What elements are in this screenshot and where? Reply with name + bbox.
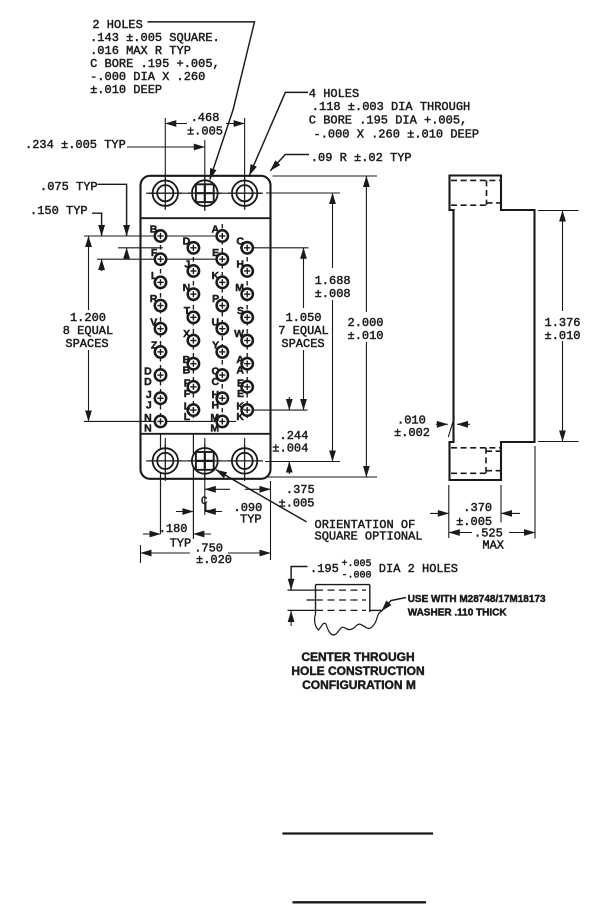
orientation of square note bbox=[315, 518, 423, 544]
contact pin NN bbox=[155, 416, 166, 427]
svg-text:.375: .375 bbox=[286, 483, 315, 497]
svg-text:2 HOLES: 2 HOLES bbox=[92, 18, 142, 32]
column 1 dashed centerline bbox=[160, 229, 162, 426]
pin letters KK bbox=[236, 401, 244, 424]
dimension .150 typ leader bbox=[30, 204, 102, 271]
jagged break line below washer bbox=[315, 611, 382, 635]
dimension 1.376 bbox=[538, 211, 581, 442]
svg-text:.180: .180 bbox=[159, 522, 188, 536]
svg-text:±.010 DEEP: ±.010 DEEP bbox=[90, 83, 162, 97]
dimension .750 overall width bbox=[141, 542, 271, 568]
horizontal rule lower bbox=[293, 901, 427, 903]
extension line body top right bbox=[273, 175, 378, 177]
row C extension line (right) bbox=[240, 247, 309, 249]
use-with washer note bbox=[408, 594, 546, 619]
svg-text:±.005: ±.005 bbox=[187, 125, 223, 139]
svg-text:V: V bbox=[150, 316, 157, 328]
bottom-middle hole vertical centerline extending below body bbox=[204, 438, 206, 515]
svg-text:E: E bbox=[237, 388, 244, 400]
horizontal rule upper bbox=[282, 832, 433, 834]
washer panel surface lines bbox=[288, 590, 367, 610]
contact pin J bbox=[188, 265, 199, 276]
contact pin C bbox=[242, 242, 253, 253]
svg-text:J: J bbox=[184, 259, 190, 271]
svg-text:.143 ±.005 SQUARE.: .143 ±.005 SQUARE. bbox=[90, 31, 220, 45]
top-right hole vertical centerline (extends up to .468 dimension) bbox=[244, 118, 246, 210]
svg-text:WASHER .110 THICK: WASHER .110 THICK bbox=[408, 608, 508, 619]
extension line body bottom right bbox=[268, 476, 377, 478]
svg-text:L: L bbox=[151, 270, 158, 282]
centerline symbol CL below square hole bbox=[201, 496, 211, 515]
extension line body left edge below bbox=[140, 545, 142, 563]
contact pin K bbox=[217, 277, 228, 288]
pin letters BB bbox=[183, 354, 191, 377]
svg-text:.075 TYP: .075 TYP bbox=[40, 180, 98, 194]
pin letters HH bbox=[212, 389, 220, 412]
extension line column2 below body bbox=[192, 434, 194, 539]
dimension .370 bbox=[430, 485, 520, 538]
svg-text:.118 ±.003 DIA THROUGH: .118 ±.003 DIA THROUGH bbox=[312, 100, 470, 114]
svg-text:L: L bbox=[184, 411, 191, 423]
bottom separator line bbox=[141, 433, 271, 435]
column 3 dashed centerline bbox=[221, 224, 223, 426]
svg-text:±.010: ±.010 bbox=[545, 329, 581, 343]
square mounting hole top-middle square bbox=[188, 177, 221, 210]
svg-text:H: H bbox=[236, 259, 244, 271]
svg-text:.09 R ±.02 TYP: .09 R ±.02 TYP bbox=[311, 151, 412, 165]
pin letters MM bbox=[210, 412, 219, 435]
contact pin D bbox=[188, 242, 199, 253]
svg-text:.370: .370 bbox=[463, 501, 492, 515]
svg-text:1.688: 1.688 bbox=[315, 274, 351, 288]
side view bottom hole hidden lines bbox=[451, 448, 500, 474]
svg-text:C BORE .195 +.005,: C BORE .195 +.005, bbox=[90, 57, 220, 71]
washer detail .195 arrows bbox=[291, 567, 307, 627]
contact pin DD bbox=[155, 369, 166, 380]
svg-text:W: W bbox=[234, 328, 244, 340]
pin letters AA bbox=[236, 354, 244, 377]
svg-text:8 EQUAL: 8 EQUAL bbox=[63, 324, 113, 338]
extension line bottom mounting hole row right bbox=[265, 461, 340, 463]
svg-text:S: S bbox=[237, 305, 244, 317]
svg-text:N: N bbox=[183, 282, 191, 294]
svg-text:M: M bbox=[210, 422, 219, 434]
pin letters FF bbox=[184, 377, 191, 400]
svg-text:C: C bbox=[212, 376, 220, 388]
svg-text:TYP: TYP bbox=[240, 513, 262, 527]
svg-text:-.000: -.000 bbox=[342, 571, 372, 582]
svg-text:.150 TYP: .150 TYP bbox=[30, 204, 88, 218]
contact pin BB bbox=[188, 358, 199, 369]
washer detail: .195 dia note bbox=[310, 559, 458, 582]
svg-text:R: R bbox=[150, 293, 158, 305]
svg-text:HOLE CONSTRUCTION: HOLE CONSTRUCTION bbox=[291, 664, 424, 678]
svg-text:M: M bbox=[235, 282, 244, 294]
dimension .180 typ bbox=[143, 522, 211, 551]
contact pin U bbox=[217, 323, 228, 334]
dimension .010 step bbox=[394, 414, 470, 441]
contact pin MM bbox=[217, 416, 228, 427]
svg-text:F: F bbox=[151, 247, 158, 259]
dimension .468 top bbox=[165, 111, 244, 139]
svg-text:.016 MAX R TYP: .016 MAX R TYP bbox=[90, 44, 191, 58]
svg-text:J: J bbox=[146, 399, 152, 411]
svg-text:P: P bbox=[212, 293, 219, 305]
mounting hole top-left bbox=[149, 177, 182, 210]
top-middle hole vertical centerline (extends up to .234 dimension) bbox=[204, 140, 206, 211]
dimension 2.000 overall bbox=[348, 176, 384, 477]
column 4 dashed centerline bbox=[246, 241, 248, 418]
svg-text:N: N bbox=[144, 422, 152, 434]
mounting hole bottom-right bbox=[228, 444, 261, 477]
svg-text:MAX: MAX bbox=[482, 539, 504, 553]
leader from orientation note to square hole bbox=[216, 470, 307, 522]
contact pin FF bbox=[188, 381, 199, 392]
pin letters NN bbox=[144, 412, 152, 435]
svg-text:B: B bbox=[183, 365, 191, 377]
connector front view body outline bbox=[141, 176, 271, 479]
svg-text:B: B bbox=[150, 224, 158, 236]
svg-text:A: A bbox=[236, 365, 244, 377]
dimension .244 bbox=[272, 397, 308, 474]
column 2 dashed centerline bbox=[192, 241, 194, 418]
leader from radius note to body corner bbox=[270, 155, 309, 171]
svg-text:-.000 DIA X .260: -.000 DIA X .260 bbox=[90, 70, 205, 84]
svg-text:A: A bbox=[212, 224, 220, 236]
caption: center through hole construction bbox=[291, 650, 424, 692]
pin letters DD bbox=[144, 366, 152, 389]
row B-A horizontal line with left extension bbox=[84, 235, 222, 237]
leader from 2-holes note to square hole bbox=[147, 22, 254, 180]
extension line body right edge below bbox=[270, 481, 272, 560]
top separator line bbox=[141, 217, 271, 219]
side view top hole hidden lines bbox=[451, 180, 500, 205]
leader from use-with note to washer bbox=[382, 598, 407, 612]
contact pin JJ bbox=[155, 393, 166, 404]
svg-text:CONFIGURATION M: CONFIGURATION M bbox=[302, 678, 416, 692]
svg-text:2.000: 2.000 bbox=[348, 316, 384, 330]
contact pin Z bbox=[155, 346, 166, 357]
svg-text:U: U bbox=[212, 316, 220, 328]
contact pin AA bbox=[242, 358, 253, 369]
svg-text:E: E bbox=[212, 247, 219, 259]
row NN-MM horizontal line with left extension bbox=[84, 420, 236, 422]
washer cross-section outline bbox=[316, 585, 383, 614]
top-left hole vertical centerline (extends up to .468 dimension) bbox=[164, 118, 166, 210]
svg-text:C: C bbox=[236, 235, 244, 247]
contact pin F bbox=[155, 253, 166, 264]
extension line column1 below body bbox=[160, 434, 162, 534]
svg-text:C BORE .195 DIA +.005,: C BORE .195 DIA +.005, bbox=[309, 114, 467, 128]
contact pin X bbox=[188, 335, 199, 346]
contact pin B bbox=[155, 230, 166, 241]
svg-text:±.002: ±.002 bbox=[394, 426, 430, 440]
mounting hole top-right bbox=[228, 177, 261, 210]
svg-text:X: X bbox=[183, 328, 190, 340]
svg-text:.195: .195 bbox=[310, 562, 339, 576]
svg-text:DIA 2 HOLES: DIA 2 HOLES bbox=[379, 562, 458, 576]
note: 2 holes square counterbore bbox=[90, 18, 220, 97]
svg-text:SPACES: SPACES bbox=[65, 337, 108, 351]
svg-text:-.000 X .260 ±.010 DEEP: -.000 X .260 ±.010 DEEP bbox=[314, 128, 480, 142]
contact pin V bbox=[155, 323, 166, 334]
contact pin N bbox=[188, 288, 199, 299]
contact pin R bbox=[155, 300, 166, 311]
contact pin T bbox=[188, 312, 199, 323]
svg-text:T: T bbox=[184, 305, 191, 317]
dimension .075 typ leader bbox=[40, 180, 127, 259]
contact pin S bbox=[242, 312, 253, 323]
svg-text:K: K bbox=[212, 270, 220, 282]
pin letters EE bbox=[237, 377, 244, 400]
contact pin LL bbox=[188, 404, 199, 415]
svg-text:1.376: 1.376 bbox=[545, 316, 581, 330]
bottom-left hole vertical centerline bbox=[164, 438, 166, 481]
svg-text:+.005: +.005 bbox=[342, 559, 372, 570]
svg-text:H: H bbox=[212, 399, 220, 411]
contact pin KK bbox=[242, 404, 253, 415]
svg-text:±.004: ±.004 bbox=[272, 442, 308, 456]
contact pin M bbox=[242, 288, 253, 299]
mounting hole bottom-left bbox=[149, 444, 182, 477]
svg-text:SQUARE OPTIONAL: SQUARE OPTIONAL bbox=[315, 530, 423, 544]
pin letters CC bbox=[212, 366, 220, 389]
leader from 4-holes note to top-right hole bbox=[249, 92, 308, 175]
bottom-right hole vertical centerline bbox=[244, 438, 246, 481]
note: 4 holes dia through bbox=[309, 87, 479, 142]
dimension 1.688 bbox=[315, 193, 351, 462]
contact pin L bbox=[155, 277, 166, 288]
svg-text:7 EQUAL: 7 EQUAL bbox=[278, 324, 328, 338]
svg-text:±.010: ±.010 bbox=[348, 329, 384, 343]
svg-text:D: D bbox=[144, 376, 152, 388]
svg-text:±.020: ±.020 bbox=[196, 553, 232, 567]
pin letters JJ bbox=[146, 389, 152, 412]
svg-text:USE WITH M28748/17M18173: USE WITH M28748/17M18173 bbox=[408, 594, 546, 605]
contact pin H bbox=[242, 265, 253, 276]
contact pin W bbox=[242, 335, 253, 346]
svg-text:±.008: ±.008 bbox=[315, 287, 351, 301]
svg-text:TYP: TYP bbox=[170, 537, 192, 551]
top mounting hole row horizontal centerline bbox=[146, 192, 263, 194]
dimension .375 bbox=[205, 483, 315, 511]
svg-text:Z: Z bbox=[151, 340, 158, 352]
row KK extension line (right) bbox=[247, 409, 308, 411]
contact pin A bbox=[217, 230, 228, 241]
row F-E horizontal line with left extension bbox=[97, 258, 222, 260]
contact pin EE bbox=[242, 381, 253, 392]
row D extension line (left) bbox=[118, 247, 163, 249]
dimension .525 max bbox=[449, 446, 535, 553]
square mounting hole bottom-middle square bbox=[188, 444, 221, 477]
svg-text:SPACES: SPACES bbox=[281, 337, 324, 351]
bottom mounting hole row horizontal centerline bbox=[146, 460, 263, 462]
svg-text:F: F bbox=[184, 388, 191, 400]
svg-text:.468: .468 bbox=[191, 111, 220, 125]
extension line top mounting hole row right bbox=[266, 192, 340, 194]
contact pin Y bbox=[217, 346, 228, 357]
contact pin P bbox=[217, 300, 228, 311]
svg-text:K: K bbox=[236, 411, 244, 423]
contact pin E bbox=[217, 253, 228, 264]
svg-text:Y: Y bbox=[212, 340, 219, 352]
contact pin CC bbox=[217, 369, 228, 380]
svg-text:1.050: 1.050 bbox=[285, 311, 321, 325]
svg-text:4 HOLES: 4 HOLES bbox=[309, 87, 359, 101]
dimension 1.200 8 equal spaces bbox=[63, 236, 113, 421]
svg-text:.234 ±.005 TYP: .234 ±.005 TYP bbox=[25, 138, 126, 152]
side view outline bbox=[450, 176, 535, 481]
svg-text:1.200: 1.200 bbox=[70, 311, 106, 325]
dimension .234 typ bbox=[25, 138, 205, 152]
svg-text:CENTER THROUGH: CENTER THROUGH bbox=[301, 650, 414, 664]
dimension 1.050 7 equal spaces bbox=[278, 248, 328, 410]
svg-text:D: D bbox=[183, 235, 191, 247]
contact pin HH bbox=[217, 393, 228, 404]
pin letters LL bbox=[184, 401, 191, 424]
dimension .090 typ bbox=[176, 501, 262, 527]
svg-text:L: L bbox=[204, 503, 211, 515]
